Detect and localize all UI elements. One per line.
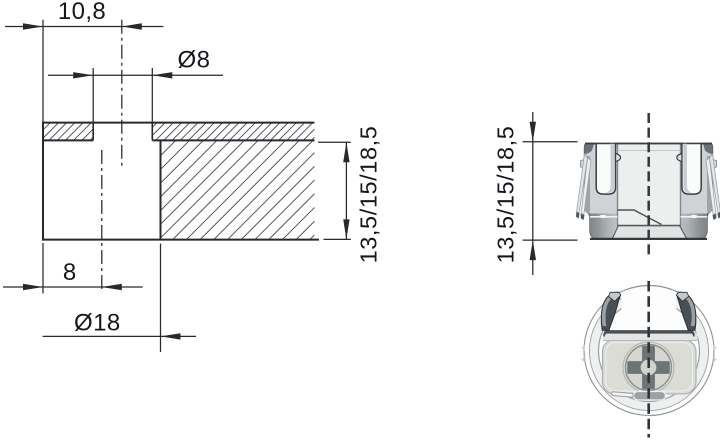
arrow 8 right — [102, 284, 122, 290]
nub left — [616, 154, 621, 162]
ring line outer — [590, 292, 709, 411]
hatch strip right — [152, 123, 314, 141]
extension line Ø8 left — [92, 68, 94, 123]
nub top-right — [713, 345, 717, 351]
nub bottom-left — [581, 357, 585, 363]
arrow 8 left — [23, 284, 43, 290]
svg-text:10,8: 10,8 — [58, 0, 106, 25]
wing left blade outer — [576, 154, 587, 218]
part bottom edge — [42, 239, 319, 241]
housing bottom edge — [590, 238, 707, 240]
part top edge — [43, 122, 315, 124]
extension line left top — [42, 20, 44, 123]
strip bottom edge left — [43, 139, 93, 141]
center line housing — [647, 113, 650, 256]
arm left tip cap — [609, 292, 621, 301]
edge band right — [707, 156, 713, 214]
cross horizontal — [627, 361, 670, 374]
cam ramp line — [618, 210, 662, 225]
collar highlight line — [590, 216, 618, 218]
arm right outer highlight — [686, 296, 695, 326]
arm right body — [677, 292, 696, 330]
arrow 10,8 right — [122, 23, 142, 29]
svg-text:8: 8 — [63, 259, 76, 286]
outer circle top arc redraw — [619, 285, 679, 292]
hatch body — [161, 140, 315, 239]
top gap white wedge — [622, 290, 677, 329]
bridge lower line — [603, 340, 697, 342]
arrow Ø8 left — [73, 72, 93, 78]
opening bottom line — [618, 225, 681, 227]
arrow Ø18 — [161, 333, 181, 339]
nub top-left — [581, 345, 585, 351]
outer circle — [584, 286, 714, 416]
wing left blade inner — [581, 158, 591, 219]
part left edge — [42, 122, 44, 241]
wall band inner edge — [599, 301, 700, 402]
extension line right bottom — [523, 239, 578, 241]
svg-text:13,5/15/18,5: 13,5/15/18,5 — [356, 126, 382, 264]
arm right tip cap — [676, 292, 688, 301]
cam disc — [626, 345, 672, 391]
center line cam — [647, 281, 650, 438]
extension line right top — [523, 141, 578, 143]
wing left tips — [576, 212, 580, 219]
wing right blade inner — [706, 158, 716, 219]
housing collar shading — [589, 214, 707, 240]
dimension line Ø18 — [43, 335, 196, 337]
left stick — [612, 392, 634, 398]
hub — [640, 359, 657, 376]
arrow depth top — [343, 142, 349, 162]
slot right — [682, 144, 701, 195]
slot left inner shade — [605, 144, 614, 193]
dimension line 10,8 — [5, 26, 163, 28]
hole Ø8 right wall — [151, 123, 153, 141]
bridge bar — [603, 330, 694, 336]
slot right inner shade — [683, 144, 692, 193]
svg-text:Ø8: Ø8 — [178, 47, 211, 74]
slot left — [596, 144, 615, 195]
arm left body — [601, 292, 620, 330]
extension line depth top — [318, 141, 351, 143]
bridge band — [603, 333, 698, 341]
center line Ø18 hole — [101, 150, 103, 292]
cross vertical — [642, 346, 655, 390]
hole Ø8 left wall — [92, 123, 94, 141]
cam pocket ring — [623, 342, 674, 393]
wing right blade outer — [710, 154, 720, 218]
arrow 10,8 left — [23, 23, 43, 29]
extension line depth bottom — [324, 238, 351, 240]
housing body — [585, 144, 713, 240]
arrow right top — [530, 122, 536, 142]
arm left outer highlight — [602, 296, 611, 326]
wing right tips — [717, 212, 720, 219]
dimension line depth — [345, 142, 347, 239]
ear tab left — [581, 160, 585, 169]
collar highlight dot left — [599, 215, 607, 218]
housing inner panel left wall — [617, 144, 619, 226]
nub right — [677, 154, 682, 162]
collar highlight dot right — [690, 215, 698, 218]
hatch strip left — [43, 123, 93, 141]
dimension line 8 — [3, 286, 143, 288]
nub bottom-right — [713, 357, 717, 363]
bottom lug — [634, 392, 666, 401]
hole Ø18 right wall — [160, 140, 162, 239]
extension line left bottom — [42, 243, 44, 294]
center line Ø8 hole — [121, 20, 123, 166]
rim inner line — [618, 150, 681, 152]
dimension line right — [532, 112, 534, 275]
strip bottom edge right — [152, 139, 314, 141]
svg-text:Ø18: Ø18 — [74, 310, 121, 337]
plate inner line — [606, 343, 693, 392]
top corner cap left — [585, 144, 595, 155]
arrow Ø8 right — [152, 72, 172, 78]
dimension line Ø8 — [48, 74, 223, 76]
housing inner panel right wall — [680, 144, 682, 226]
bottom face trapezoid — [612, 226, 687, 239]
arrow depth bottom — [343, 219, 349, 239]
wall band — [594, 296, 704, 406]
extension line Ø18 — [160, 244, 162, 352]
housing inner panel — [618, 144, 681, 225]
housing top edge — [585, 143, 596, 145]
plate — [603, 340, 697, 395]
top corner cap right — [703, 144, 713, 155]
extension line Ø8 right — [151, 68, 153, 123]
edge band left — [585, 156, 591, 214]
arrow right bottom — [530, 240, 536, 260]
svg-text:13,5/15/18,5: 13,5/15/18,5 — [493, 126, 519, 264]
ear tab right — [713, 160, 717, 169]
